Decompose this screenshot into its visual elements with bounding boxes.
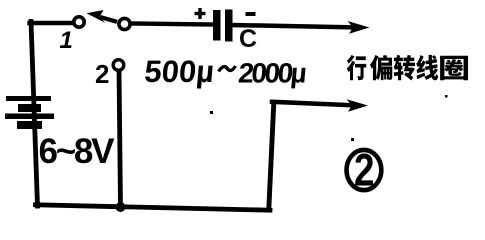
scan speck bbox=[351, 138, 354, 141]
wire bottom horizontal bbox=[36, 205, 271, 210]
svg-text:2: 2 bbox=[95, 59, 109, 89]
wire top-left horizontal bbox=[30, 21, 75, 25]
switch S1 pole contact bbox=[119, 18, 130, 29]
capacitor plus sign bbox=[195, 8, 206, 19]
switch contact 2 bbox=[113, 60, 124, 71]
battery B1 bbox=[5, 96, 54, 129]
svg-text:2: 2 bbox=[354, 145, 375, 196]
capacitor C plate positive bbox=[213, 10, 221, 41]
capacitor minus sign bbox=[246, 12, 256, 16]
wire left vertical bbox=[31, 22, 38, 207]
junction node bbox=[116, 202, 126, 212]
wire capacitor-to-arrow bbox=[232, 25, 351, 27]
svg-text:2000µ: 2000µ bbox=[237, 58, 308, 89]
scan speck bbox=[445, 95, 448, 98]
switch S1 arm bbox=[100, 17, 117, 22]
label 行偏转线圈 bbox=[347, 55, 468, 81]
wire lower-branch vertical bbox=[269, 103, 274, 209]
svg-text:500µ: 500µ bbox=[143, 54, 216, 89]
switch S1 contact 1 bbox=[74, 17, 84, 27]
svg-text:6~8V: 6~8V bbox=[39, 132, 116, 171]
wire lower-branch horizontal bbox=[272, 102, 350, 105]
arrowhead top output bbox=[348, 21, 370, 34]
svg-text:C: C bbox=[239, 25, 257, 53]
scan speck bbox=[210, 111, 213, 114]
symbol circled 2 bbox=[347, 150, 382, 190]
wire contact2 vertical bbox=[119, 69, 121, 207]
svg-text:1: 1 bbox=[60, 27, 73, 54]
switch S1 arm arrowhead bbox=[87, 10, 106, 23]
arrowhead lower output bbox=[347, 99, 369, 112]
wire switch-to-capacitor bbox=[130, 24, 214, 25]
label tilde bbox=[219, 66, 236, 72]
capacitor C plate negative bbox=[225, 10, 233, 42]
